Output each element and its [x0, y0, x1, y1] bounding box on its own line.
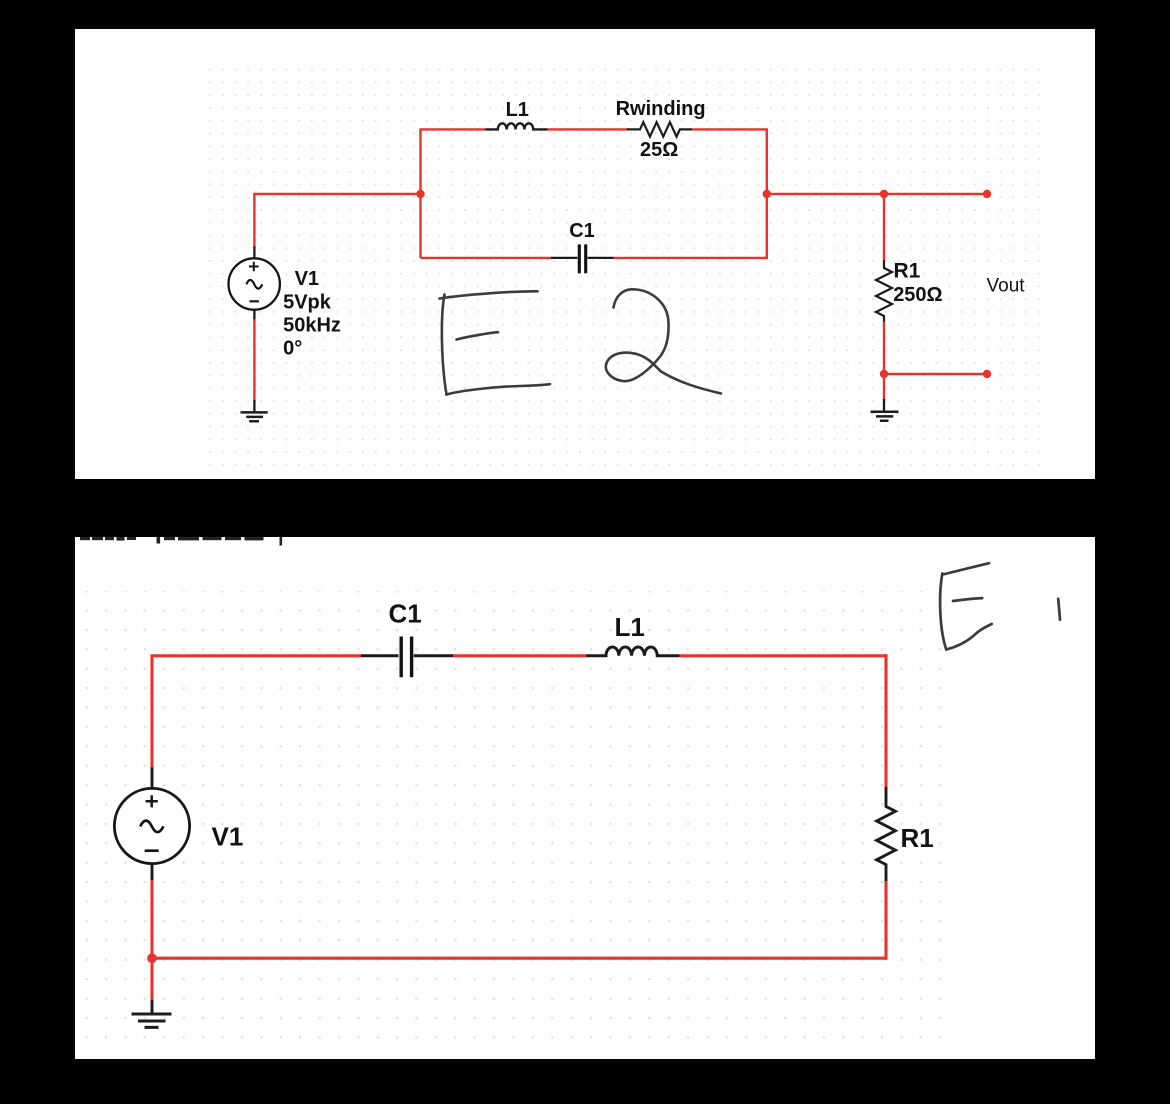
- svg-text:5Vpk: 5Vpk: [283, 292, 332, 314]
- wire: bottom loop segment right: [614, 257, 768, 259]
- wire: R1 bottom lead red: [883, 322, 885, 375]
- svg-text:Rwinding: Rwinding: [616, 98, 706, 120]
- V1 sine symbol: [246, 280, 262, 289]
- source V1 circle: [114, 788, 189, 863]
- V1 plus sign: [146, 795, 158, 807]
- wire: V1 bottom lead black stub: [253, 309, 255, 321]
- wire: top loop segment left: [419, 128, 486, 130]
- svg-text:C1: C1: [389, 599, 422, 629]
- inductor L1: [586, 647, 679, 656]
- wire: bottom horizontal red: [152, 957, 888, 960]
- junction R1 top: [880, 190, 888, 198]
- top schematic panel: [75, 29, 1095, 479]
- wire: ground stub black: [151, 1000, 154, 1014]
- handwriting E left stroke: [940, 574, 946, 650]
- terminal Vout-: [983, 370, 991, 378]
- handwriting E bottom bar: [447, 384, 551, 394]
- resistor R1: [877, 787, 896, 882]
- junction node A: [416, 190, 424, 198]
- wire: R1 bottom node to output: [884, 373, 987, 375]
- wire: top left segment red: [152, 654, 362, 657]
- resistor Rwinding: [627, 122, 693, 136]
- capacitor C1 leads: [551, 257, 614, 259]
- svg-text:Vout: Vout: [987, 276, 1026, 297]
- bottom schematic panel: [75, 537, 1095, 1059]
- resistor R1: [876, 260, 892, 322]
- svg-text:C1: C1: [569, 220, 595, 242]
- handwriting 2: [606, 289, 721, 393]
- wire: top loop segment middle: [548, 128, 627, 130]
- handwriting E (bottom panel) top bar: [943, 563, 989, 574]
- svg-text:25Ω: 25Ω: [640, 139, 678, 161]
- source V1 circle: [229, 258, 280, 309]
- wire: ground stub black: [883, 399, 885, 412]
- wire: top right segment red: [680, 654, 888, 657]
- junction node B: [763, 190, 771, 198]
- wire: right side of parallel loop: [766, 129, 768, 258]
- inductor L1: [486, 123, 548, 129]
- wire: down to ground red: [883, 374, 885, 400]
- wire: right vertical bottom red: [884, 881, 887, 960]
- wire: V1 to ground red: [253, 319, 255, 401]
- svg-text:250Ω: 250Ω: [893, 284, 942, 306]
- clipped text sliver at top: [80, 537, 282, 546]
- V1 minus sign: [145, 849, 159, 852]
- wire: V1 to junction red: [150, 880, 153, 1001]
- svg-text:50kHz: 50kHz: [283, 315, 341, 337]
- ground (V1): [241, 412, 268, 421]
- svg-text:R1: R1: [901, 823, 934, 853]
- ground (bottom panel): [132, 1014, 172, 1027]
- handwriting E middle bar: [953, 598, 982, 601]
- terminal Vout+: [983, 190, 991, 198]
- handwriting E (top panel) top bar: [440, 291, 538, 298]
- wire: V1 bottom black stub: [151, 864, 154, 882]
- V1 sine symbol: [140, 821, 163, 833]
- wire: right vertical top red: [884, 654, 887, 787]
- svg-text:R1: R1: [894, 260, 921, 283]
- svg-text:0°: 0°: [283, 338, 302, 360]
- junction R1 bottom: [880, 370, 888, 378]
- wire: V1 top lead red: [253, 194, 255, 248]
- svg-text:L1: L1: [506, 99, 529, 121]
- svg-text:V1: V1: [212, 822, 244, 852]
- wire: top loop segment right: [692, 128, 768, 130]
- svg-text:L1: L1: [615, 612, 645, 642]
- handwriting E bottom bar: [946, 624, 991, 650]
- handwriting 1: [1058, 599, 1060, 620]
- junction node (bottom left): [147, 953, 157, 963]
- wire: node B to output: [767, 193, 987, 195]
- handwriting E left stroke: [442, 295, 447, 395]
- wire: top middle segment red: [453, 654, 587, 657]
- wire: R1 top lead red: [883, 194, 885, 261]
- wire: V1 top lead black stub: [253, 247, 255, 260]
- capacitor C1 plates: [401, 637, 411, 678]
- wire: V1 ground stub black: [253, 400, 255, 413]
- capacitor C1 leads: [361, 654, 453, 657]
- wire: left side of parallel loop: [419, 129, 421, 258]
- V1 plus sign: [249, 262, 259, 272]
- V1 minus sign: [250, 300, 259, 302]
- wire: bottom loop segment left: [421, 257, 552, 259]
- wire: left vertical red: [150, 654, 153, 768]
- capacitor C1 plates: [579, 244, 585, 273]
- svg-text:V1: V1: [295, 268, 319, 290]
- handwriting E middle bar: [457, 332, 499, 339]
- wire: V1 top black stub: [151, 768, 154, 790]
- wire: V1 to node A horizontal: [253, 193, 420, 195]
- ground (R1): [871, 412, 899, 421]
